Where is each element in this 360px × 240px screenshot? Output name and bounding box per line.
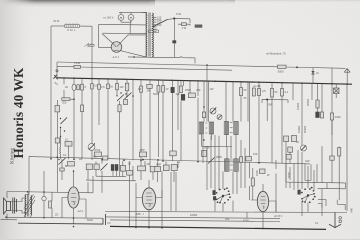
resistor Rr3 (271, 89, 274, 98)
resistor vert right1 (316, 100, 319, 112)
right group drop wires (226, 82, 347, 212)
resistor box X (334, 88, 340, 94)
terminal box Ant lower (55, 100, 60, 118)
switch diagonal y166 (101, 164, 108, 171)
right column vertical x317 (317, 84, 319, 100)
connector bracket right (262, 99, 288, 103)
junction dot (73, 98, 75, 100)
junction dots speaker bus (27, 191, 45, 193)
resistor R4 (116, 83, 119, 89)
wire to junction (70, 98, 74, 100)
wave trap box (88, 44, 94, 46)
output transformer core (28, 194, 29, 217)
cap C1b box (77, 85, 80, 90)
resistor above wafer1 (240, 157, 243, 163)
AVC bus line (29, 157, 310, 195)
resistor R3 50 (107, 84, 114, 89)
resistor on line B (74, 65, 80, 68)
left group drop wires (64, 78, 127, 84)
box x163-177 (163, 165, 177, 171)
svg-text:0,1: 0,1 (315, 221, 319, 225)
wires above ABC1 (130, 160, 158, 186)
wires below wafers (215, 201, 308, 217)
ground chevron (329, 212, 341, 227)
svg-text:4μF: 4μF (176, 92, 181, 96)
terminal circle left (56, 70, 58, 72)
diode Gl (311, 68, 314, 84)
box top row x96-104 (95, 148, 102, 157)
svg-text:300: 300 (196, 88, 201, 92)
middle group drop wires (133, 80, 207, 161)
resistor Rr4 (281, 89, 284, 97)
wire lineA to bus x207 (206, 65, 208, 81)
left group lower wires (64, 89, 127, 160)
resistor Rm2 horizontal (147, 84, 153, 92)
svg-text:10000: 10000 (296, 102, 300, 110)
svg-text:+o 160 V: +o 160 V (103, 15, 114, 19)
wire long vertical left rail (50, 26, 52, 159)
resistor bottom left (49, 201, 52, 208)
bottom drop wires (130, 172, 176, 228)
svg-text:2500: 2500 (185, 88, 191, 92)
svg-text:1 W: 1 W (182, 26, 187, 30)
dial lamp La2 (128, 12, 134, 22)
bandswitch wafer 1 (213, 188, 230, 203)
svg-text:2M: 2M (147, 88, 151, 92)
ACH1 leads (251, 184, 276, 229)
svg-text:S.W.: S.W. (176, 12, 182, 16)
antenna coil box (65, 25, 80, 28)
svg-text:APP: APP (156, 163, 161, 167)
svg-text:0,1: 0,1 (138, 87, 142, 91)
svg-text:Körting: Körting (10, 147, 16, 164)
switch arm band (117, 95, 124, 102)
svg-text:50000: 50000 (303, 125, 307, 133)
svg-text:AP: AP (79, 157, 83, 161)
speaker magnet bars (13, 198, 17, 214)
antenna terminal mark (54, 75, 58, 80)
svg-text:0,5: 0,5 (262, 89, 266, 93)
resistor R1 (81, 84, 84, 90)
svg-text:P H I L: P H I L (68, 28, 76, 32)
bottom bus (110, 226, 326, 229)
bottom-left stub line (1, 219, 18, 221)
resistor R2 (98, 84, 101, 89)
speaker top bus (7, 176, 93, 193)
IFT2 winding right (234, 122, 238, 135)
power transformer T1 secondary (152, 13, 153, 57)
box top row x139-148 (139, 148, 146, 157)
T1 secondary bottom lead (151, 56, 153, 57)
svg-text:0,1: 0,1 (285, 90, 289, 94)
trimmer circle T1 (210, 107, 216, 114)
bottom return line left upper (5, 216, 103, 218)
electrolytic right (316, 112, 320, 118)
svg-text:AL4: AL4 (77, 209, 84, 213)
wafer1 risers (215, 135, 241, 194)
IFT1 winding left (199, 122, 203, 134)
box top row x170-177 (170, 151, 176, 156)
heater line bottom (128, 57, 195, 64)
svg-text:mit Motorantr. (?): mit Motorantr. (?) (266, 52, 286, 56)
wire x339 (338, 147, 340, 201)
wire lamp return (121, 22, 131, 34)
trimmer cap C1 (72, 84, 76, 90)
bandswitch wafer 2 (298, 188, 315, 203)
triode tube ABC1 (142, 188, 155, 210)
svg-text:Gl: Gl (316, 71, 319, 75)
bottom return line right mid (105, 212, 280, 218)
svg-text:5000: 5000 (153, 92, 159, 96)
cap Cr0 (252, 88, 255, 96)
wire coil left (51, 25, 65, 27)
svg-text:GW: GW (305, 159, 310, 163)
wire x119.5 down (119, 101, 121, 176)
wafer2 risers (302, 152, 314, 190)
extra verticals bottom band (88, 160, 178, 193)
voltage selector switch arm (153, 19, 168, 26)
wire mains line upper (99, 23, 146, 26)
svg-text:946: 946 (350, 208, 354, 213)
wire lamp feed top (119, 11, 146, 13)
svg-text:300: 300 (225, 217, 230, 221)
svg-text:1000: 1000 (255, 170, 259, 176)
svg-text:50000: 50000 (306, 98, 310, 106)
AL4 leads (62, 171, 86, 224)
output transformer secondary (30, 196, 33, 216)
wave trap diagonal (85, 43, 93, 47)
electrolytic Cm3 (181, 94, 185, 100)
right bottom drops (249, 146, 332, 216)
svg-text:APP: APP (140, 148, 145, 152)
IFT1 core (205, 123, 207, 133)
ABC1 leads (136, 180, 162, 227)
box left chain lower (55, 138, 60, 143)
power transformer T1 primary (145, 13, 148, 57)
svg-text:10000: 10000 (297, 125, 301, 133)
svg-text:5000: 5000 (87, 218, 93, 222)
small box x204 lower (202, 151, 207, 157)
padder circle (88, 143, 95, 150)
small box mid (124, 100, 128, 105)
vertical comb left of wafer1 (203, 135, 245, 194)
svg-text:0,5: 0,5 (101, 85, 105, 89)
wafer1 extra dots (217, 187, 231, 203)
svg-text:100: 100 (253, 152, 258, 156)
right nested frame lines (286, 140, 346, 210)
ACH1 top caps (246, 157, 265, 174)
contact dots mid (125, 93, 134, 96)
labels sprinkle mid (63, 140, 310, 177)
wire vertical x92 (91, 26, 93, 78)
electrolytic Cm2 (171, 87, 174, 92)
output tube AL4 (68, 187, 79, 208)
junction dot line A right (296, 66, 298, 68)
wire switch to fuse (168, 18, 191, 21)
svg-text:5000: 5000 (278, 70, 284, 74)
svg-text:ACH 1: ACH 1 (273, 214, 283, 218)
svg-text:1W: 1W (120, 85, 124, 89)
wire right vertical x332 (331, 68, 333, 135)
svg-text:GW: GW (268, 103, 273, 107)
T1 primary top lead (142, 11, 147, 14)
dots on AVC bus mid (142, 159, 159, 161)
wire x92 to bus2 (91, 150, 93, 160)
coil small left (59, 128, 62, 159)
ABC1 grid caps (127, 166, 161, 175)
speaker cone (4, 198, 11, 214)
resistor Rm4 horizontal (188, 93, 195, 98)
fuse resistor box (182, 23, 187, 26)
cap pair Cm1 (157, 86, 165, 93)
row boxes y164-172 left of ABC1 (86, 164, 99, 170)
rectifier tube AZ1 (102, 34, 146, 57)
mixer tube ACH1 (257, 191, 268, 211)
wire mains line lower (103, 32, 146, 35)
trimmer circle T2 (217, 115, 222, 120)
resistor R5 (125, 83, 128, 91)
IFT1 winding right (209, 122, 213, 134)
contact dots left column (60, 118, 65, 137)
antenna coil tick row (65, 23, 78, 26)
resistor mid left (81, 105, 84, 112)
resistor Rr1 50 (240, 88, 247, 96)
dot lineA x207 (206, 64, 208, 66)
svg-text:0,1: 0,1 (63, 153, 67, 157)
junction dots AVC (50, 158, 260, 164)
box right mid2 (330, 156, 334, 160)
svg-text:10000: 10000 (190, 213, 198, 217)
small fuse box top (195, 25, 202, 28)
svg-text:0,5: 0,5 (107, 221, 111, 225)
junction dots on HT bus (63, 77, 348, 85)
svg-text:5000: 5000 (243, 219, 249, 223)
box top row x104-110 (103, 156, 108, 160)
antenna coil hatch (67, 25, 78, 28)
labels sprinkle bottom (55, 213, 319, 226)
small boxes on x204 (202, 106, 205, 141)
horizontal segments above ABC1 (86, 176, 136, 181)
resistor Rm3 (180, 86, 183, 93)
svg-text:A Z 1: A Z 1 (112, 55, 120, 59)
resistor right col (338, 148, 341, 157)
switch diagonal mid (125, 93, 132, 100)
svg-text:1W: 1W (210, 87, 214, 91)
extra vertical wires middle (178, 80, 267, 156)
box x150-160 (150, 167, 155, 172)
speaker wires (11, 198, 26, 213)
AL4 grid components (60, 162, 75, 172)
dial lamp La1 (118, 12, 124, 22)
wire x338 (335, 84, 337, 98)
svg-text:ca.10k: ca.10k (253, 84, 261, 88)
svg-text:5 ZW: 5 ZW (74, 61, 81, 65)
bottom junction dots (73, 226, 264, 230)
IFT3 core (230, 160, 233, 170)
wire x82 lower (81, 112, 83, 159)
hum cap circle (42, 196, 46, 200)
4V winding box (149, 30, 159, 33)
svg-text:470k: 470k (95, 148, 101, 152)
labels sprinkle top (65, 85, 289, 100)
wire fuse drop (178, 19, 190, 26)
svg-text:0,1: 0,1 (177, 160, 181, 164)
bottom return line right upper (105, 212, 347, 213)
screen line B (57, 66, 232, 70)
resistor Rr2 (253, 84, 261, 96)
box right mid1 (286, 147, 292, 159)
box above AVC bus left (65, 138, 72, 160)
bottom return line left lower (18, 214, 106, 225)
power transformer T1 core (149, 13, 150, 57)
svg-text:0,1: 0,1 (65, 138, 69, 142)
boxes x120-134 (120, 166, 125, 172)
resistor horizontal 300 (62, 98, 70, 105)
ACH1 grid resistor (251, 168, 254, 200)
junction dot connector (266, 99, 268, 101)
switch contact dot (173, 17, 175, 19)
smoothing cap C lead (173, 19, 175, 58)
svg-text:300: 300 (62, 101, 67, 105)
wire coil right (79, 25, 92, 27)
IFT2 winding left (224, 122, 228, 135)
speaker drop wires (7, 118, 57, 218)
oscillator trimmer (301, 145, 307, 151)
electrolytic cap blob (173, 41, 176, 43)
svg-text:5000: 5000 (287, 172, 291, 178)
box right upper col (284, 136, 297, 142)
screen line A (57, 62, 346, 68)
dark cap pair y164 (111, 165, 118, 171)
resistor Rm1 (140, 86, 143, 92)
svg-text:0,1: 0,1 (93, 155, 97, 159)
antenna symbol top right (344, 69, 350, 85)
cap right x322 (320, 112, 323, 118)
IFT3 winding left (225, 159, 229, 172)
OT hatch (24, 195, 35, 218)
band contact dots (116, 92, 127, 97)
output transformer primary (24, 195, 27, 217)
resistor right2 (330, 113, 333, 146)
wires middle lower (141, 88, 198, 162)
wire x62 (61, 159, 63, 180)
svg-text:AP: AP (147, 162, 151, 166)
labels right column vertical (255, 125, 307, 178)
wire AZ1 anode left (99, 24, 112, 47)
resistor on line A (278, 65, 287, 68)
switch diagonal IF (208, 158, 215, 164)
terminal circles bottom right (339, 217, 342, 223)
wafer2 extra dots (302, 187, 316, 202)
svg-text:Honoris 40 WK: Honoris 40 WK (11, 67, 26, 159)
switch arm lower left (59, 158, 66, 165)
wire jog at left rail (56, 62, 58, 78)
wires right lower (241, 96, 282, 164)
main HT bus (57, 78, 352, 84)
bottom return line right lower (110, 220, 280, 222)
cap pair 0.1 (91, 84, 99, 90)
svg-text:W 31: W 31 (54, 19, 61, 23)
resistor x119.5 (118, 105, 121, 112)
T1 voltage taps (154, 17, 157, 31)
IFT2 core (230, 123, 233, 133)
svg-text:1MΩ: 1MΩ (335, 115, 341, 119)
wire IFT links (201, 134, 236, 159)
IFT3 winding right (234, 159, 238, 172)
switch arm left column (61, 118, 68, 125)
dots lower left (58, 159, 74, 172)
vertical comb left of wafer2 (286, 150, 317, 190)
